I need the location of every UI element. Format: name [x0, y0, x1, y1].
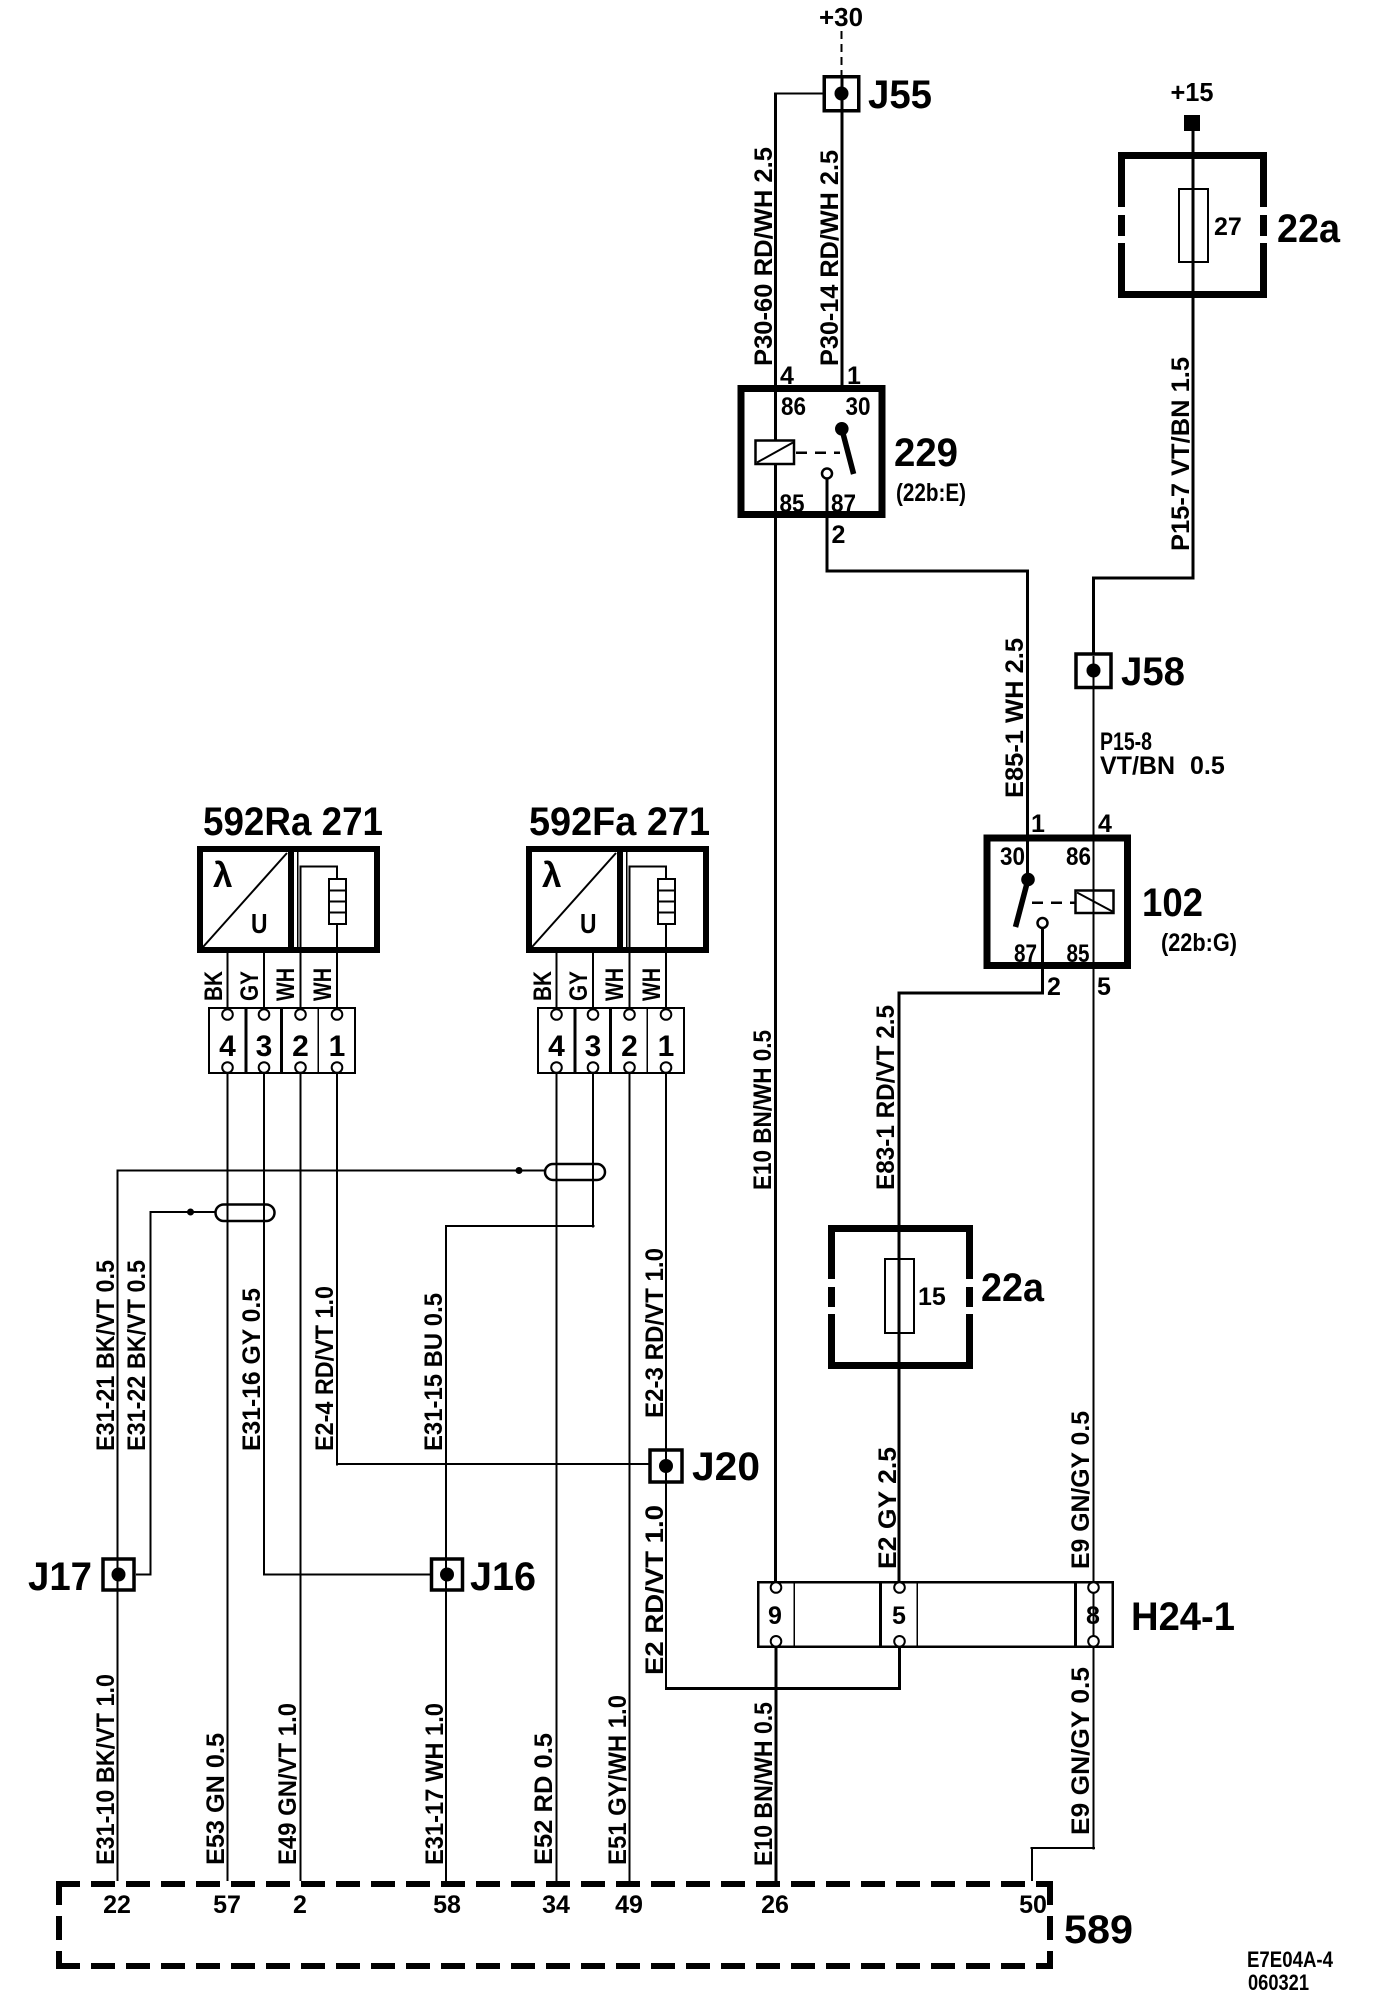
svg-text:592Fa 271: 592Fa 271	[529, 800, 710, 844]
svg-text:1: 1	[1031, 810, 1045, 838]
connector J16	[432, 1555, 537, 1599]
svg-text:87: 87	[831, 490, 856, 518]
svg-text:J55: J55	[868, 73, 932, 117]
svg-text:WH: WH	[601, 968, 629, 1001]
svg-text:P30-60 RD/WH 2.5: P30-60 RD/WH 2.5	[750, 147, 778, 366]
svg-text:2: 2	[832, 521, 846, 549]
svg-text:589: 589	[1064, 1908, 1133, 1952]
svg-text:E10 BN/WH 0.5: E10 BN/WH 0.5	[750, 1702, 778, 1866]
+15 terminal square	[1184, 115, 1200, 131]
fuse 15 element	[885, 1259, 914, 1333]
svg-text:J16: J16	[470, 1555, 536, 1599]
svg-text:592Ra 271: 592Ra 271	[203, 800, 383, 844]
svg-text:2: 2	[621, 1030, 638, 1063]
svg-text:0.5: 0.5	[1190, 752, 1225, 780]
connector strip (592Ra) pins 4 3 2 1	[209, 1007, 355, 1074]
twisted pair marker (592Fa signal wires)	[545, 1164, 605, 1180]
fuse holder box 22a (dashed, fuse 15)	[828, 1225, 973, 1369]
wire GY pin3 (592Fa)	[592, 950, 594, 1008]
wire BK pin4 (592Ra)	[227, 950, 229, 1008]
relay 229 coil	[756, 441, 795, 465]
relay 102 coil-switch dashed link	[1032, 901, 1075, 904]
svg-text:E31-22 BK/VT 0.5: E31-22 BK/VT 0.5	[123, 1260, 151, 1451]
wire E31-22 BK/VT 0.5 (J17 stub up to twisted pair of 592Ra)	[136, 1209, 216, 1576]
svg-text:E9 GN/GY 0.5: E9 GN/GY 0.5	[1067, 1411, 1095, 1569]
wire E83-1 RD/VT 2.5 (relay 102 pin 87/2 down to fuse 15 and H24-1 pin 5)	[898, 929, 1045, 1583]
wire E49 GN/VT 1.0 (592Ra pin 2 to ECU pin 2)	[300, 1074, 302, 1881]
diagonal (592Fa sensor cell)	[532, 853, 616, 947]
wire E10 BN/WH 0.5 (relay 229 pin 86-85 down to H24-1 pin 9)	[774, 93, 777, 1584]
svg-text:P30-14 RD/WH 2.5: P30-14 RD/WH 2.5	[816, 150, 844, 366]
svg-text:E31-16 GY 0.5: E31-16 GY 0.5	[238, 1288, 266, 1451]
wire E2-3 RD/VT 1.0 (592Fa pin 1 down to J20)	[665, 1074, 667, 1484]
wire corner P15 to J58	[1092, 577, 1195, 580]
svg-text:49: 49	[615, 1891, 643, 1919]
svg-text:86: 86	[1066, 843, 1091, 871]
svg-text:3: 3	[256, 1030, 273, 1063]
svg-text:WH: WH	[309, 968, 337, 1001]
heater element (592Fa)	[629, 866, 676, 1008]
svg-text:E53 GN 0.5: E53 GN 0.5	[202, 1733, 230, 1865]
svg-text:U: U	[580, 908, 597, 939]
connector H24-1	[758, 1581, 1113, 1648]
svg-text:GY: GY	[236, 971, 264, 1001]
svg-text:E2-3 RD/VT 1.0: E2-3 RD/VT 1.0	[641, 1248, 669, 1418]
svg-text:5: 5	[1097, 973, 1111, 1001]
svg-text:E2 GY 2.5: E2 GY 2.5	[874, 1447, 902, 1569]
connector J20	[650, 1445, 760, 1489]
svg-text:22a: 22a	[981, 1266, 1045, 1310]
svg-text:J58: J58	[1121, 650, 1185, 694]
svg-text:E2-4 RD/VT 1.0: E2-4 RD/VT 1.0	[311, 1286, 339, 1451]
svg-text:1: 1	[329, 1030, 346, 1063]
svg-text:4: 4	[219, 1030, 236, 1063]
wire dashed from +30 to J55	[841, 31, 843, 76]
svg-text:85: 85	[780, 490, 805, 518]
wire from 592Fa pin 3 down to J16 via left jog	[445, 1074, 595, 1592]
svg-text:E85-1 WH 2.5: E85-1 WH 2.5	[1001, 638, 1029, 798]
svg-text:87: 87	[1014, 940, 1037, 968]
wire E10 BN/WH 0.5 (H24-1 pin 9 to ECU pin 26)	[775, 1648, 778, 1881]
svg-text:229: 229	[894, 431, 958, 475]
connector J17	[28, 1555, 134, 1599]
svg-text:P15-7 VT/BN 1.5: P15-7 VT/BN 1.5	[1167, 357, 1195, 551]
heater element (592Ra)	[300, 866, 347, 1008]
wire E31-10 BK/VT 1.0 (J17 down to ECU pin 22)	[117, 1588, 119, 1881]
wire P15-7 VT/BN 1.5 (from +15 through fuse 27 down)	[1192, 131, 1195, 580]
lambda sensor 592Fa box	[529, 846, 706, 953]
svg-text:15: 15	[918, 1283, 946, 1311]
wire GY pin3 (592Ra)	[263, 950, 265, 1008]
svg-text:BK: BK	[200, 971, 228, 1001]
lambda sensor 592Ra box	[200, 846, 377, 953]
wire E31-17 WH 1.0 (J16 down to ECU pin 58)	[445, 1588, 447, 1881]
wire E53 GN 0.5 (592Ra pin 4 to ECU pin 57)	[227, 1074, 229, 1881]
wire E2 RD/VT 1.0 (J20 down to H24-1 pin 5 underside)	[665, 1480, 901, 1690]
svg-text:E7E04A-4: E7E04A-4	[1247, 1947, 1334, 1972]
twisted pair marker (592Ra signal wires)	[216, 1205, 275, 1222]
relay 229	[741, 389, 882, 519]
svg-text:H24-1: H24-1	[1131, 1595, 1235, 1639]
svg-text:4: 4	[548, 1030, 565, 1063]
relay 102 coil	[1076, 891, 1114, 914]
wire E2-4 RD/VT 1.0 (592Ra pin 1 down to J20)	[336, 1074, 651, 1466]
svg-text:5: 5	[892, 1602, 906, 1630]
wire E31-16 GY 0.5 (592Ra pin 3 down to J16)	[263, 1074, 432, 1576]
svg-text:+30: +30	[819, 2, 863, 32]
svg-text:85: 85	[1067, 940, 1090, 968]
wire BK pin4 (592Fa)	[556, 950, 558, 1008]
svg-text:+15: +15	[1171, 77, 1214, 107]
svg-text:22a: 22a	[1277, 207, 1341, 251]
svg-text:E52 RD 0.5: E52 RD 0.5	[530, 1733, 558, 1865]
svg-text:λ: λ	[542, 856, 561, 895]
svg-text:30: 30	[1000, 843, 1025, 871]
svg-text:WH: WH	[638, 968, 666, 1001]
relay 102 switch arm	[1016, 873, 1048, 928]
ECU 589 (dashed box)	[56, 1881, 1053, 1969]
svg-text:E31-21 BK/VT 0.5: E31-21 BK/VT 0.5	[92, 1260, 120, 1451]
svg-text:E31-17 WH 1.0: E31-17 WH 1.0	[421, 1703, 449, 1865]
svg-text:E10 BN/WH 0.5: E10 BN/WH 0.5	[749, 1030, 777, 1190]
svg-text:86: 86	[781, 393, 806, 421]
svg-text:9: 9	[768, 1602, 782, 1630]
svg-text:(22b:E): (22b:E)	[896, 479, 966, 507]
svg-text:BK: BK	[529, 971, 557, 1001]
svg-text:4: 4	[1098, 810, 1112, 838]
svg-text:VT/BN: VT/BN	[1100, 752, 1175, 780]
svg-text:2: 2	[293, 1891, 307, 1919]
svg-text:060321: 060321	[1248, 1970, 1309, 1995]
wire P30-14 RD/WH 2.5 (J55 to relay 229 pin 1/30)	[841, 77, 844, 391]
svg-text:E2 RD/VT 1.0: E2 RD/VT 1.0	[641, 1505, 669, 1675]
svg-text:E31-10 BK/VT 1.0: E31-10 BK/VT 1.0	[92, 1674, 120, 1865]
svg-text:E9 GN/GY 0.5: E9 GN/GY 0.5	[1067, 1667, 1095, 1835]
connector J58	[1076, 650, 1185, 694]
svg-text:50: 50	[1019, 1891, 1047, 1919]
connector strip (592Fa) pins 4 3 2 1	[538, 1007, 684, 1074]
svg-text:E31-15 BU 0.5: E31-15 BU 0.5	[420, 1293, 448, 1451]
relay 102	[987, 838, 1128, 968]
svg-text:WH: WH	[272, 968, 300, 1001]
svg-text:E51 GY/WH 1.0: E51 GY/WH 1.0	[604, 1695, 632, 1865]
wire E52 RD 0.5 (592Fa pin 4 to ECU pin 34)	[556, 1074, 558, 1881]
svg-text:E83-1 RD/VT 2.5: E83-1 RD/VT 2.5	[872, 1005, 900, 1190]
svg-text:102: 102	[1142, 881, 1203, 925]
wire E9 GN/GY 0.5 (J58 through relay 102 86-85 down through H24-1 pin 8)	[1093, 656, 1095, 1850]
svg-text:8: 8	[1086, 1602, 1100, 1630]
svg-text:30: 30	[846, 393, 871, 421]
svg-text:58: 58	[433, 1891, 461, 1919]
wire E51 GY/WH 1.0 (592Fa pin 2 to ECU pin 49)	[629, 1074, 631, 1881]
svg-text:34: 34	[542, 1891, 570, 1919]
svg-text:(22b:G): (22b:G)	[1161, 929, 1237, 957]
svg-text:26: 26	[761, 1891, 789, 1919]
svg-text:57: 57	[213, 1891, 241, 1919]
svg-text:GY: GY	[565, 971, 593, 1001]
svg-text:E49 GN/VT 1.0: E49 GN/VT 1.0	[274, 1703, 302, 1865]
svg-text:J17: J17	[28, 1555, 92, 1599]
wire E31-21 BK/VT 0.5 (J17 up and right to twisted pair of 592Fa)	[117, 1167, 546, 1592]
wire E9 GN/GY 0.5 (H24-1 pin 8 to ECU pin 50)	[1031, 1848, 1096, 1881]
svg-text:22: 22	[103, 1891, 131, 1919]
diagonal (592Ra sensor cell)	[203, 853, 287, 947]
svg-text:1: 1	[658, 1030, 675, 1063]
svg-text:2: 2	[292, 1030, 309, 1063]
fuse holder box 22a (dashed)	[1118, 152, 1267, 298]
svg-text:3: 3	[585, 1030, 602, 1063]
svg-text:27: 27	[1214, 213, 1242, 241]
relay 229 coil-switch dashed link	[796, 452, 840, 455]
wire P30-60 RD/WH 2.5 (J55 to relay 229 pin 4/86)	[775, 93, 777, 392]
connector J55	[824, 73, 932, 117]
fuse 27 element	[1179, 189, 1208, 262]
relay 229 switch arm	[822, 422, 854, 479]
svg-text:J20: J20	[692, 1445, 760, 1489]
svg-text:U: U	[251, 908, 268, 939]
svg-text:2: 2	[1047, 973, 1061, 1001]
wire E85-1 WH 2.5 (relay 229 pin 87/2 to relay 102 pin 1/30)	[826, 479, 1030, 881]
svg-text:λ: λ	[213, 856, 232, 895]
wire J55 left stub	[775, 93, 824, 95]
wire P15-8 VT/BN 0.5 (J58 to relay 102 pin 4/86)	[1093, 687, 1095, 839]
